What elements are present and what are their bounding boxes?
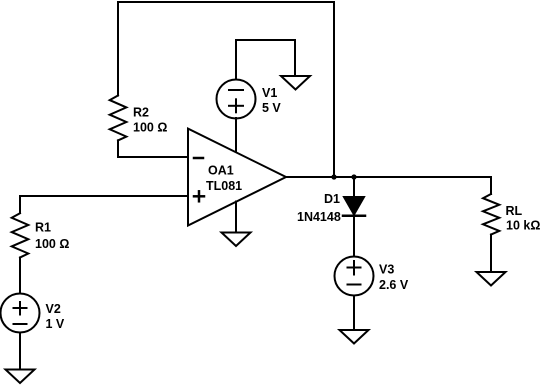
- svg-text:TL081: TL081: [206, 179, 242, 193]
- svg-text:V2: V2: [46, 302, 61, 316]
- svg-text:100 Ω: 100 Ω: [35, 237, 69, 251]
- ground (V1): [281, 76, 310, 90]
- svg-text:R2: R2: [133, 106, 149, 120]
- node junction diode branch: [351, 174, 356, 179]
- label R1 value: [35, 221, 69, 251]
- wire R1 to V2: [19, 258, 21, 294]
- op-amp U1 OA1: [188, 129, 286, 226]
- svg-text:10 kΩ: 10 kΩ: [506, 219, 540, 233]
- svg-text:5 V: 5 V: [262, 101, 281, 115]
- diode D1: [343, 197, 365, 216]
- svg-text:100 Ω: 100 Ω: [133, 121, 167, 135]
- svg-text:2.6 V: 2.6 V: [379, 278, 409, 292]
- svg-text:1 V: 1 V: [46, 317, 65, 331]
- wire V1 to op-amp positive supply pin: [235, 118, 237, 153]
- ground (op-amp): [222, 233, 251, 247]
- wire diode anode: [353, 177, 355, 197]
- svg-text:1N4148: 1N4148: [297, 210, 341, 224]
- svg-text:V1: V1: [262, 86, 277, 100]
- resistor RL: [483, 194, 499, 235]
- node junction feedback: [331, 174, 336, 179]
- ground (RL): [477, 272, 506, 286]
- wire V2 to ground: [19, 333, 21, 369]
- op-amp inverting input marker: [194, 157, 203, 160]
- label V2 value: [46, 302, 65, 331]
- source V3: [335, 257, 374, 296]
- source V1: [217, 80, 256, 119]
- label R2 value: [133, 106, 167, 135]
- ground (V2): [6, 370, 35, 384]
- ground (V3): [340, 330, 369, 344]
- wire diode cathode to V3: [353, 216, 355, 256]
- wire output rail: [286, 176, 491, 178]
- label V1 value: [262, 86, 281, 115]
- wire V1 top to ground loop: [236, 40, 295, 80]
- svg-text:R1: R1: [35, 221, 51, 235]
- wire op-amp negative supply pin to ground: [235, 202, 237, 233]
- wire output rail corner to RL: [490, 177, 492, 194]
- svg-text:V3: V3: [379, 263, 394, 277]
- wire RL to ground: [490, 235, 492, 272]
- wire noninverting input from R1: [20, 196, 188, 213]
- label RL value: [506, 204, 540, 233]
- wire V3 to ground: [353, 296, 355, 329]
- resistor R2: [110, 96, 127, 141]
- resistor R1: [12, 213, 29, 257]
- label V3 value: [379, 263, 409, 292]
- wire feedback top loop: [118, 2, 334, 177]
- svg-text:D1: D1: [324, 192, 340, 206]
- label D1 value: [297, 192, 341, 224]
- label OA1 TL081: [206, 163, 242, 193]
- op-amp noninverting input marker: [194, 191, 204, 201]
- svg-text:RL: RL: [506, 204, 523, 218]
- source V2: [1, 294, 40, 333]
- svg-text:OA1: OA1: [208, 163, 234, 177]
- wire R2 bottom to inverting input: [118, 140, 188, 157]
